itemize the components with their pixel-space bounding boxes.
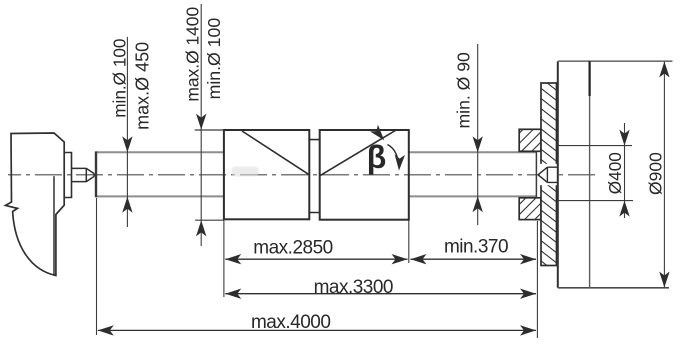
ghost smudge in block B1	[232, 167, 259, 177]
workpiece shaft left segment	[96, 152, 224, 196]
spindle centre cone	[538, 167, 557, 182]
chuck jaw upper (hatched)	[519, 129, 541, 151]
workpiece end face at chuck	[535, 151, 537, 198]
block B1 bottom extension line	[195, 219, 224, 221]
dimension max.3300	[225, 293, 536, 295]
block B1 (max swing body)	[224, 130, 309, 219]
svg-text:max.2850: max.2850	[253, 238, 332, 259]
dimension max.2850	[225, 258, 407, 260]
dimension max.O1400/min.O100 line	[200, 4, 202, 246]
svg-text:min.Ø 100: min.Ø 100	[204, 18, 224, 100]
svg-text:max.Ø 1400: max.Ø 1400	[183, 7, 203, 102]
svg-text:max.3300: max.3300	[314, 277, 393, 298]
block B1 top extension line	[195, 129, 224, 131]
svg-text:Ø900: Ø900	[646, 152, 666, 195]
workpiece shaft left end face	[95, 151, 97, 197]
extension line below block B2 right edge	[408, 221, 410, 264]
dimension min.O90 line	[477, 44, 479, 225]
tailstock inner quill barrel line	[53, 176, 55, 274]
block B2 taper diagonal	[320, 130, 397, 176]
svg-text:β: β	[367, 139, 387, 175]
O400 top extension line	[558, 145, 632, 147]
spindle body inner edge	[588, 61, 590, 96]
angle beta arc arrow	[388, 145, 399, 165]
headstock wall bore opening	[540, 164, 558, 185]
connector between blocks	[309, 140, 319, 213]
spindle body top edge / O900 top extension	[558, 60, 673, 62]
spindle body rectangle	[557, 61, 559, 288]
extension line below chuck face	[536, 221, 538, 338]
tailstock dead centre cone	[86, 168, 94, 181]
svg-text:Ø400: Ø400	[605, 152, 625, 194]
dimension min.O100/max.O450 line	[126, 37, 128, 227]
svg-text:max.4000: max.4000	[251, 312, 330, 333]
centerline (dash-dot axis)	[8, 174, 600, 176]
svg-text:min.Ø 100: min.Ø 100	[110, 39, 130, 118]
extension line at workpiece left end	[96, 198, 98, 335]
tailstock quill housing	[64, 153, 71, 198]
svg-text:min. Ø 90: min. Ø 90	[454, 52, 474, 128]
dimension O900 line	[663, 62, 665, 288]
svg-text:max.Ø 450: max.Ø 450	[132, 42, 152, 130]
tailstock body	[6, 133, 65, 276]
chuck jaw lower (hatched)	[519, 198, 541, 220]
tailstock quill shaft	[72, 168, 87, 182]
O400 bottom extension line	[558, 200, 633, 202]
block B1 taper diagonal	[242, 131, 309, 175]
dimension max.4000	[98, 329, 536, 331]
dimension min.370	[411, 258, 537, 260]
svg-text:min.370: min.370	[444, 237, 508, 258]
dimension O400 line	[624, 123, 626, 218]
extension line below block B1 left edge	[223, 219, 225, 297]
block B2 (swing body with taper angle)	[320, 130, 409, 220]
headstock wall (hatched)	[541, 83, 557, 266]
spindle body bottom edge / O900 bottom extension	[558, 287, 669, 289]
workpiece shaft right segment	[409, 152, 537, 196]
